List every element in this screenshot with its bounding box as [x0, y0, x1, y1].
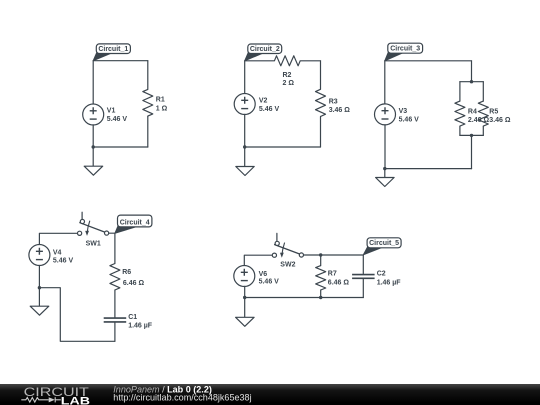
svg-text:1 Ω: 1 Ω	[156, 106, 168, 113]
svg-text:2.46 Ω: 2.46 Ω	[468, 117, 490, 124]
svg-text:Circuit_1: Circuit_1	[98, 46, 128, 53]
svg-text:R1: R1	[156, 97, 165, 104]
svg-text:R3: R3	[329, 98, 338, 105]
svg-text:5.46 V: 5.46 V	[259, 279, 280, 286]
svg-text:3.46 Ω: 3.46 Ω	[489, 117, 511, 124]
svg-text:V3: V3	[399, 108, 408, 115]
svg-text:R2: R2	[283, 72, 292, 79]
svg-text:R4: R4	[468, 108, 477, 115]
svg-text:http://circuitlab.com/cch48jk6: http://circuitlab.com/cch48jk65e38j	[113, 393, 251, 403]
svg-text:5.46 V: 5.46 V	[259, 106, 280, 113]
svg-text:C2: C2	[377, 271, 386, 278]
svg-text:C1: C1	[128, 314, 137, 321]
svg-text:5.46 V: 5.46 V	[107, 116, 128, 123]
svg-text:6.46 Ω: 6.46 Ω	[123, 280, 145, 287]
svg-text:R6: R6	[122, 269, 131, 276]
svg-text:V6: V6	[259, 271, 268, 278]
svg-text:V4: V4	[53, 250, 62, 257]
svg-text:6.46 Ω: 6.46 Ω	[328, 279, 350, 286]
svg-text:2 Ω: 2 Ω	[283, 80, 295, 87]
svg-text:R5: R5	[489, 108, 498, 115]
svg-text:Circuit_2: Circuit_2	[250, 46, 280, 53]
svg-text:V1: V1	[107, 107, 116, 114]
svg-text:5.46 V: 5.46 V	[53, 258, 74, 265]
svg-text:1.46 µF: 1.46 µF	[128, 323, 153, 330]
svg-text:SW1: SW1	[86, 240, 101, 247]
svg-text:3.46 Ω: 3.46 Ω	[329, 107, 351, 114]
svg-text:5.46 V: 5.46 V	[399, 116, 420, 123]
svg-text:R7: R7	[328, 271, 337, 278]
svg-text:LAB: LAB	[61, 395, 91, 405]
svg-text:V2: V2	[259, 98, 268, 105]
svg-text:Circuit_5: Circuit_5	[369, 240, 399, 247]
svg-text:SW2: SW2	[280, 261, 295, 268]
svg-text:1.46 µF: 1.46 µF	[377, 279, 402, 286]
svg-text:Circuit_4: Circuit_4	[120, 219, 150, 226]
svg-text:Circuit_3: Circuit_3	[390, 46, 420, 53]
